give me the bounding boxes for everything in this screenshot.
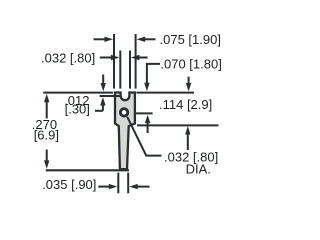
hole diameter leader line: [127, 117, 161, 156]
hole (plated hole in lug): [120, 109, 127, 116]
svg-text:DIA.: DIA.: [186, 161, 211, 176]
dimension .035 left arrow: [98, 184, 117, 189]
step line (.012 lower reference on head): [100, 95, 122, 97]
dimension .032 slot right arrow: [131, 55, 148, 60]
extension line L4 (part right edge, top): [135, 34, 137, 89]
shoulder extension line (.114 lower reference): [137, 124, 219, 126]
svg-text:.075 [1.90]: .075 [1.90]: [160, 32, 221, 47]
dimension .270 down arrow: [44, 150, 49, 169]
top surface extension line left: [43, 92, 113, 94]
part body (terminal lug with slot and tapered pin): [115, 93, 135, 170]
dimension .012 up arrow: [95, 97, 106, 111]
top surface extension line right: [137, 92, 195, 94]
extension line L2 (slot left edge): [119, 51, 121, 89]
hole centre extension line: [136, 112, 153, 114]
bottom extension line (pin tip level): [46, 169, 129, 171]
dimension .075 right arrow: [137, 37, 156, 42]
dimension .070 up arrow: [145, 115, 150, 133]
dimension .270 up arrow: [44, 94, 49, 119]
dimension .114 up arrow: [185, 126, 190, 150]
dimension .032 slot left arrow: [100, 55, 120, 60]
dimension .070 leader and down arrow: [144, 64, 160, 91]
extension line L3 (slot right edge): [129, 51, 131, 89]
svg-text:[6.9]: [6.9]: [34, 128, 59, 143]
dimension .012 down arrow: [101, 75, 106, 92]
svg-text:[.30]: [.30]: [65, 102, 90, 117]
dimension .114 down arrow: [186, 77, 191, 92]
dimension .035 right arrow: [129, 184, 149, 189]
svg-text:.035 [.90]: .035 [.90]: [42, 177, 96, 192]
pin right extension line: [127, 173, 129, 194]
pin left extension line: [117, 173, 119, 194]
dimension .075 left arrow: [94, 37, 114, 42]
svg-text:.114 [2.9]: .114 [2.9]: [159, 97, 212, 112]
extension line L1 (part left edge, top): [113, 34, 115, 89]
svg-text:.032 [.80]: .032 [.80]: [41, 50, 95, 65]
svg-text:.070 [1.80]: .070 [1.80]: [160, 57, 221, 72]
